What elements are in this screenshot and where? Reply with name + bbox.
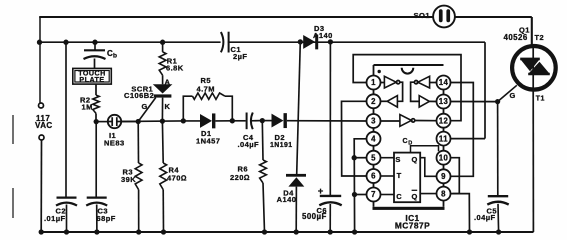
svg-text:S: S bbox=[395, 155, 400, 164]
svg-text:b: b bbox=[113, 53, 117, 60]
svg-text:C: C bbox=[396, 192, 402, 201]
svg-text:+: + bbox=[318, 186, 324, 197]
svg-text:13: 13 bbox=[439, 97, 449, 106]
svg-text:T1: T1 bbox=[536, 96, 545, 103]
svg-text:2µF: 2µF bbox=[233, 52, 247, 61]
svg-text:.01µF: .01µF bbox=[44, 214, 66, 223]
svg-text:D2: D2 bbox=[275, 133, 286, 142]
svg-text:A: A bbox=[165, 78, 171, 87]
svg-text:VAC: VAC bbox=[35, 121, 53, 130]
svg-text:T2: T2 bbox=[535, 33, 545, 42]
svg-text:39K: 39K bbox=[121, 175, 136, 184]
svg-text:T: T bbox=[397, 171, 402, 180]
svg-text:D: D bbox=[408, 141, 412, 147]
svg-text:1N457: 1N457 bbox=[196, 136, 220, 145]
svg-text:PLATE: PLATE bbox=[79, 76, 104, 84]
svg-text:.04µF: .04µF bbox=[238, 140, 260, 149]
svg-text:6: 6 bbox=[371, 172, 376, 181]
svg-text:6.8K: 6.8K bbox=[166, 64, 184, 73]
svg-text:C: C bbox=[403, 138, 409, 145]
svg-text:.04µF: .04µF bbox=[474, 213, 496, 222]
svg-text:Q: Q bbox=[412, 192, 418, 201]
svg-text:G: G bbox=[142, 102, 148, 111]
svg-text:4.7M: 4.7M bbox=[197, 85, 215, 94]
svg-text:SO1: SO1 bbox=[414, 11, 431, 20]
svg-text:1: 1 bbox=[371, 78, 376, 87]
svg-text:1M: 1M bbox=[82, 103, 93, 112]
svg-text:A140: A140 bbox=[313, 31, 333, 40]
svg-text:4: 4 bbox=[371, 135, 376, 144]
svg-text:40526: 40526 bbox=[504, 33, 528, 42]
svg-text:MC787P: MC787P bbox=[395, 220, 430, 230]
svg-text:11: 11 bbox=[439, 134, 448, 143]
svg-text:500µF: 500µF bbox=[302, 212, 327, 221]
svg-text:5: 5 bbox=[371, 153, 376, 162]
svg-text:G: G bbox=[510, 91, 516, 100]
svg-text:68pF: 68pF bbox=[97, 214, 116, 223]
svg-text:K: K bbox=[165, 102, 171, 111]
svg-text:10: 10 bbox=[439, 153, 449, 162]
svg-text:8: 8 bbox=[441, 189, 446, 198]
svg-text:1N191: 1N191 bbox=[270, 142, 293, 149]
svg-text:3: 3 bbox=[371, 117, 376, 126]
svg-text:9: 9 bbox=[441, 172, 446, 181]
svg-text:7: 7 bbox=[371, 190, 376, 199]
svg-text:12: 12 bbox=[439, 116, 449, 125]
svg-text:Q: Q bbox=[412, 155, 418, 164]
svg-text:C106B2: C106B2 bbox=[124, 91, 154, 100]
svg-text:A140: A140 bbox=[277, 195, 297, 204]
svg-text:220Ω: 220Ω bbox=[230, 173, 250, 182]
svg-text:NE83: NE83 bbox=[104, 139, 125, 148]
svg-text:2: 2 bbox=[371, 97, 376, 106]
svg-text:470Ω: 470Ω bbox=[167, 173, 187, 182]
svg-text:14: 14 bbox=[439, 78, 449, 87]
